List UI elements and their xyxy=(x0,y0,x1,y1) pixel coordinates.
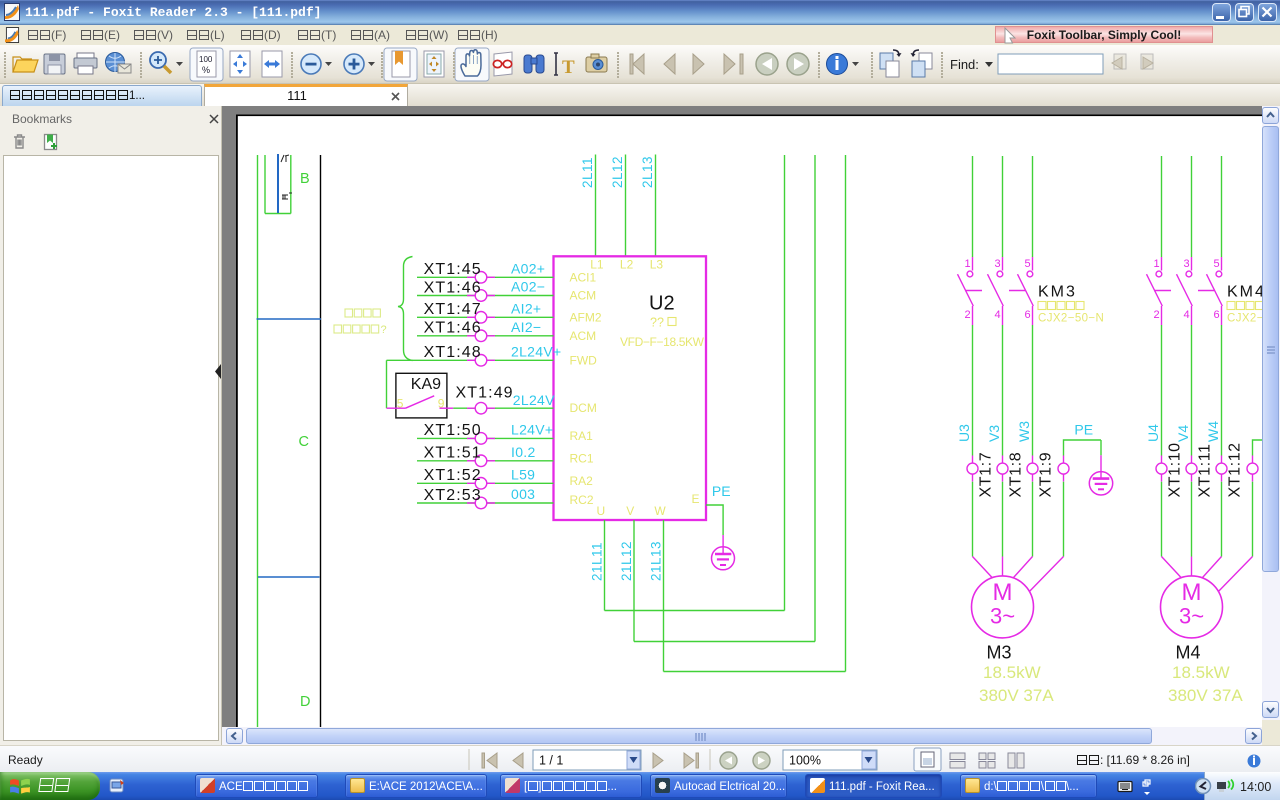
wire from XT1:48 net down to KA9 xyxy=(386,360,388,408)
wire XT1:52 row (net L59) xyxy=(417,482,554,484)
bus 21L13 vertical xyxy=(845,155,847,672)
svg-text:CJX2−50−N: CJX2−50−N xyxy=(1038,313,1104,325)
svg-text:KM3: KM3 xyxy=(1038,284,1077,301)
svg-text:E: E xyxy=(692,492,700,506)
svg-text:V: V xyxy=(626,504,634,518)
terminal XT1:46 xyxy=(467,330,495,342)
annotation: analog signal shielded cable (garbled CJK, pale yellow) xyxy=(334,309,380,333)
wire XT1:45 row (net A02+) xyxy=(417,276,554,278)
svg-text:A02+: A02+ xyxy=(511,260,545,276)
motor M4 lead connections xyxy=(1162,557,1253,592)
svg-text:1: 1 xyxy=(965,258,971,270)
motor M3 (3-phase) xyxy=(972,576,1034,638)
wire XT1:50 row (net L24V+) xyxy=(417,437,554,439)
svg-text:U4: U4 xyxy=(1145,424,1161,442)
drawing frame inner border (black) xyxy=(320,155,322,727)
svg-text:L3: L3 xyxy=(650,258,664,272)
svg-text:VFD−F−18.5KW: VFD−F−18.5KW xyxy=(620,335,705,349)
wire terminal to motor M3 xyxy=(1032,482,1034,557)
svg-text:6: 6 xyxy=(1025,309,1031,321)
svg-text:2L24V+: 2L24V+ xyxy=(511,343,561,359)
KM4 pole 2 contact xyxy=(1177,257,1193,325)
svg-text:4: 4 xyxy=(995,309,1001,321)
svg-text:ACM: ACM xyxy=(570,289,597,303)
KM3 pole 2 contact xyxy=(988,257,1004,325)
wire U2 E pin to ground (PE) xyxy=(706,505,723,535)
svg-text:AFM2: AFM2 xyxy=(570,310,602,324)
svg-text:AI2−: AI2− xyxy=(511,319,541,335)
svg-text:PE: PE xyxy=(1074,422,1093,438)
terminal XT1:50 xyxy=(467,433,495,445)
svg-text:XT1:7: XT1:7 xyxy=(978,452,995,498)
frame row divider C/D (blue) xyxy=(258,576,320,578)
svg-text:DCM: DCM xyxy=(570,401,597,415)
feeder wire to KM4 pole 2 xyxy=(1191,156,1193,257)
svg-text:2L11: 2L11 xyxy=(580,157,595,188)
wire KM3 pole 2 to terminal xyxy=(1002,325,1004,456)
svg-text:21L11: 21L11 xyxy=(590,542,605,581)
svg-text:B: B xyxy=(300,171,310,187)
wire KM4 pole 1 to terminal xyxy=(1161,325,1163,456)
ground symbol at U2 xyxy=(712,535,735,570)
terminal XT1:51 xyxy=(467,455,495,467)
svg-text:XT1:11: XT1:11 xyxy=(1197,444,1214,498)
wire KM4 pole 2 to terminal xyxy=(1191,325,1193,456)
wire terminal to motor M3 xyxy=(972,482,974,557)
svg-text:RA2: RA2 xyxy=(570,474,594,488)
bus 21L12 vertical xyxy=(814,155,816,642)
svg-text:FWD: FWD xyxy=(570,353,598,367)
svg-text:2L13: 2L13 xyxy=(640,156,655,188)
KM4 pole 3 contact xyxy=(1207,257,1223,325)
terminal PE terminal (KM3 group) xyxy=(1058,456,1069,482)
svg-text:KA9: KA9 xyxy=(411,376,441,393)
feeder wire to KM3 pole 3 xyxy=(1032,156,1034,257)
KA9 NO contact xyxy=(387,396,454,408)
svg-text:2L24V: 2L24V xyxy=(513,392,555,408)
terminal XT1:48 xyxy=(467,355,495,367)
svg-text:W3: W3 xyxy=(1016,421,1032,442)
svg-text:2: 2 xyxy=(1154,309,1160,321)
terminal XT2:53 xyxy=(467,497,495,509)
wire XT1:51 row (net I0.2) xyxy=(417,460,554,462)
terminal XT1:12 (KM4 group) xyxy=(1216,456,1227,482)
motor M3 lead connections xyxy=(973,557,1064,592)
KM4 pole 1 contact xyxy=(1147,257,1163,325)
svg-text:3: 3 xyxy=(995,258,1001,270)
wire KM4 pole 3 to terminal xyxy=(1221,325,1223,456)
terminal XT1:46 xyxy=(467,290,495,302)
terminal XT1:9 (KM3 group) xyxy=(1027,456,1038,482)
title block symbol at top-left xyxy=(265,154,292,214)
frame row divider B/C (blue) xyxy=(257,318,322,320)
terminal XT1:45 xyxy=(467,272,495,284)
svg-text:L2: L2 xyxy=(620,258,634,272)
terminal XT1:11 (KM4 group) xyxy=(1186,456,1197,482)
terminal XT1:7 (KM3 group) xyxy=(967,456,978,482)
svg-text:??: ?? xyxy=(650,316,664,330)
KM4 linkage line xyxy=(1154,290,1225,292)
svg-text:U2: U2 xyxy=(649,293,675,315)
svg-text:ACM: ACM xyxy=(570,329,597,343)
svg-text:L59: L59 xyxy=(511,466,535,482)
svg-text:2: 2 xyxy=(965,309,971,321)
terminal XT1:10 (KM4 group) xyxy=(1156,456,1167,482)
svg-text:L24V+: L24V+ xyxy=(511,421,553,437)
wire XT1:48 row (net 2L24V+) xyxy=(387,359,554,361)
svg-text:21L12: 21L12 xyxy=(619,541,634,581)
svg-text:U: U xyxy=(597,504,606,518)
terminal XT1:49 xyxy=(467,402,495,414)
svg-text:Find:: Find: xyxy=(950,57,979,72)
pdf viewport background xyxy=(222,106,1262,727)
wire 21L12 horizontal run xyxy=(634,641,815,643)
ground symbol at motor PE xyxy=(1089,440,1112,495)
wire terminal to motor M4 xyxy=(1221,482,1223,557)
svg-text:21L13: 21L13 xyxy=(649,541,664,581)
wire XT1:46 row (net A02−) xyxy=(417,295,554,297)
svg-text:XT1:49: XT1:49 xyxy=(456,385,514,402)
wire U2 output 21L11 vertical xyxy=(604,520,606,611)
svg-text:XT1:48: XT1:48 xyxy=(424,344,482,361)
svg-text:XT1:10: XT1:10 xyxy=(1167,442,1184,497)
brace for analog signal group xyxy=(398,257,413,361)
wire U2 output 21L13 vertical xyxy=(663,520,665,672)
svg-text:CJX2−: CJX2− xyxy=(1227,313,1262,325)
svg-text:KM4: KM4 xyxy=(1227,284,1262,301)
svg-text:XT1:46: XT1:46 xyxy=(424,279,482,296)
white PDF page xyxy=(238,116,1262,727)
wire 2L12 (U2 input) xyxy=(625,155,627,257)
wire 21L11 horizontal run xyxy=(605,610,785,612)
wire XT1:46 row (net AI2−) xyxy=(417,335,554,337)
wire KA9 to U2 DCM (net 2L24V) xyxy=(453,407,553,409)
wire terminal to motor M3 xyxy=(1002,482,1004,557)
svg-text:M3: M3 xyxy=(987,643,1012,663)
feeder wire to KM4 pole 3 xyxy=(1221,156,1223,257)
feeder wire to KM3 pole 2 xyxy=(1002,156,1004,257)
wire U2 output 21L12 vertical xyxy=(633,520,635,642)
terminal XT1:52 xyxy=(467,478,495,490)
svg-text:M: M xyxy=(993,579,1013,606)
svg-text:100%: 100% xyxy=(789,754,821,768)
svg-text:5: 5 xyxy=(1214,258,1220,270)
svg-text:M: M xyxy=(1182,579,1202,606)
svg-text:3~: 3~ xyxy=(1179,604,1204,629)
relay contact KA9 box xyxy=(396,373,447,418)
svg-text:%: % xyxy=(202,65,210,75)
svg-text:1: 1 xyxy=(1154,258,1160,270)
svg-text:XT1:45: XT1:45 xyxy=(424,261,482,278)
svg-text:XT1:51: XT1:51 xyxy=(424,445,482,462)
page border left xyxy=(236,115,238,728)
svg-text:380V 37A: 380V 37A xyxy=(1168,686,1243,705)
svg-text:W4: W4 xyxy=(1205,421,1221,442)
svg-text:XT1:52: XT1:52 xyxy=(424,467,482,484)
feeder wire to KM4 pole 1 xyxy=(1161,156,1163,257)
svg-text:U3: U3 xyxy=(956,424,972,442)
feeder wire to KM3 pole 1 xyxy=(972,156,974,257)
svg-text:380V 37A: 380V 37A xyxy=(979,686,1054,705)
terminal PE terminal (KM4 group) xyxy=(1247,456,1258,482)
svg-text:ACI1: ACI1 xyxy=(570,270,597,284)
wire 2L11 (U2 input) xyxy=(595,155,597,257)
wire 2L13 (U2 input) xyxy=(655,155,657,257)
KM3 pole 1 contact xyxy=(958,257,974,325)
wire terminal to motor M4 xyxy=(1252,482,1254,557)
motor M4 (3-phase) xyxy=(1161,576,1223,638)
svg-text:003: 003 xyxy=(511,486,535,502)
svg-text:3: 3 xyxy=(1184,258,1190,270)
wire XT2:53 row (net 003) xyxy=(417,502,554,504)
svg-text:100: 100 xyxy=(199,55,213,64)
svg-text:XT1:46: XT1:46 xyxy=(424,320,482,337)
svg-text:XT1:47: XT1:47 xyxy=(424,301,482,318)
svg-text:AI2+: AI2+ xyxy=(511,300,541,316)
drawing frame outer border (green) xyxy=(257,155,259,727)
svg-text:D: D xyxy=(300,694,310,710)
svg-text:PE: PE xyxy=(712,483,731,499)
svg-text:2L12: 2L12 xyxy=(610,156,625,188)
page border top xyxy=(236,115,1262,117)
svg-text:5: 5 xyxy=(1025,258,1031,270)
terminal XT1:8 (KM3 group) xyxy=(997,456,1008,482)
svg-text:XT2:53: XT2:53 xyxy=(424,487,482,504)
svg-text:1 / 1: 1 / 1 xyxy=(539,754,563,768)
bus 21L11 vertical xyxy=(784,155,786,611)
wire terminal to motor M4 xyxy=(1191,482,1193,557)
svg-text:RA1: RA1 xyxy=(570,429,594,443)
svg-text:C: C xyxy=(299,434,309,450)
svg-text:6: 6 xyxy=(1214,309,1220,321)
svg-text:W: W xyxy=(654,504,666,518)
svg-text:T: T xyxy=(562,57,575,78)
svg-text:RC2: RC2 xyxy=(570,493,594,507)
wire KM3 pole 1 to terminal xyxy=(972,325,974,456)
svg-text:I0.2: I0.2 xyxy=(511,444,536,460)
PE wire for KM3 group xyxy=(1064,440,1102,456)
svg-text:18.5kW: 18.5kW xyxy=(983,663,1041,682)
svg-text:XT1:8: XT1:8 xyxy=(1008,452,1025,498)
svg-text:XT1:9: XT1:9 xyxy=(1038,452,1055,498)
svg-text:V3: V3 xyxy=(986,425,1002,442)
svg-text:?: ? xyxy=(381,324,387,336)
svg-text:18.5kW: 18.5kW xyxy=(1172,663,1230,682)
KM4 type label (CJK) xyxy=(1227,302,1264,310)
wire XT1:47 row (net AI2+) xyxy=(417,316,554,318)
svg-text:4: 4 xyxy=(1184,309,1190,321)
svg-text:XT1:12: XT1:12 xyxy=(1227,442,1244,497)
wire 21L13 horizontal run xyxy=(664,671,846,673)
wire terminal to motor M4 xyxy=(1161,482,1163,557)
svg-text:3~: 3~ xyxy=(990,604,1015,629)
terminal XT1:47 xyxy=(467,312,495,324)
svg-text:RC1: RC1 xyxy=(570,451,594,465)
wire terminal to motor M3 xyxy=(1063,482,1065,557)
svg-text:A02−: A02− xyxy=(511,279,545,295)
wire KM3 pole 3 to terminal xyxy=(1032,325,1034,456)
inverter U2 (VFD) xyxy=(554,256,707,520)
svg-text:M4: M4 xyxy=(1176,643,1201,663)
KM3 type label (CJK) xyxy=(1038,302,1084,310)
svg-text:V4: V4 xyxy=(1175,425,1191,442)
svg-text:XT1:50: XT1:50 xyxy=(424,422,482,439)
PE wire for KM4 group xyxy=(1253,440,1263,456)
KM3 pole 3 contact xyxy=(1018,257,1034,325)
KM3 linkage line xyxy=(965,290,1036,292)
